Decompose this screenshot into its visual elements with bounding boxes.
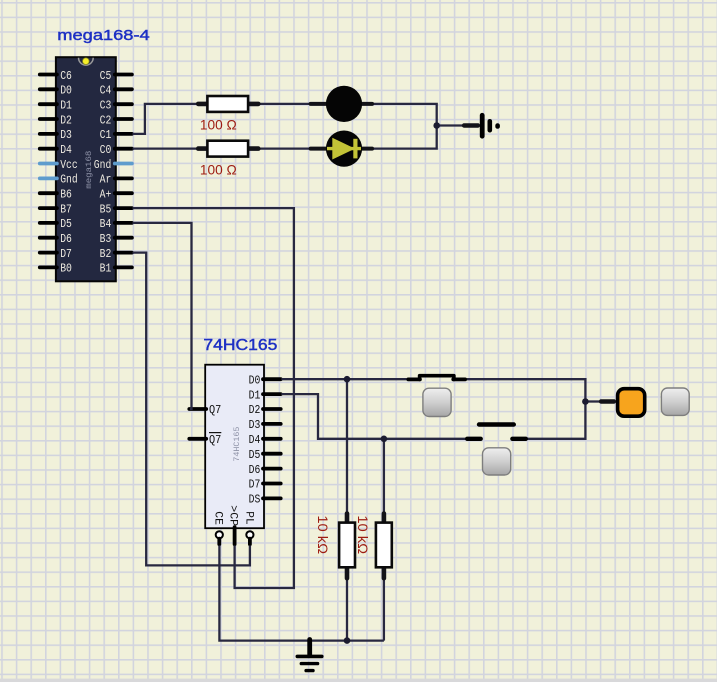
svg-text:D3: D3 bbox=[249, 419, 261, 432]
svg-text:Q7: Q7 bbox=[209, 404, 221, 417]
svg-text:PL: PL bbox=[242, 511, 254, 524]
U1 pin A+ (right) bbox=[100, 188, 132, 202]
wire R1 to LED1 bbox=[258, 103, 311, 105]
U2 pin D7 (right) bbox=[249, 479, 281, 492]
svg-text:74HC165: 74HC165 bbox=[203, 337, 277, 354]
U1 pin B1 (right) bbox=[100, 262, 132, 276]
svg-text:mega168-4: mega168-4 bbox=[57, 28, 149, 44]
svg-text:C4: C4 bbox=[100, 84, 112, 98]
button cap S4 bbox=[661, 388, 689, 415]
ground rail junction bbox=[344, 637, 351, 644]
U2 pin D3 (right) bbox=[249, 419, 281, 432]
U1 pin C6 (left) bbox=[40, 69, 72, 83]
U2 pin D6 (right) bbox=[249, 464, 281, 477]
resistor R1 100 ohm bbox=[198, 96, 258, 112]
button cap S2 bbox=[483, 448, 511, 475]
svg-text:C6: C6 bbox=[60, 69, 72, 83]
wire U1.B2 to U2.PL bbox=[133, 253, 250, 566]
svg-text:C2: C2 bbox=[100, 113, 112, 127]
U2 pin D5 (right) bbox=[249, 449, 281, 462]
U1 pin Vcc (left) bbox=[40, 158, 78, 172]
svg-text:DS: DS bbox=[249, 494, 261, 507]
node B junction (D0/R3) bbox=[344, 376, 351, 383]
IC U2 74HC165 body bbox=[205, 365, 264, 529]
svg-text:C3: C3 bbox=[100, 99, 112, 113]
pushbutton S2 symbol bbox=[467, 425, 526, 439]
wire LED1 to node A bbox=[373, 104, 437, 126]
U1 pin B0 (left) bbox=[40, 262, 72, 276]
U2 pin DS (right) bbox=[249, 494, 281, 507]
ground GND1 (rotated) bbox=[464, 115, 498, 136]
svg-text:D3: D3 bbox=[60, 128, 72, 142]
svg-text:D0: D0 bbox=[249, 374, 261, 387]
svg-text:C0: C0 bbox=[100, 143, 112, 157]
U1 pin C1 (right) bbox=[100, 128, 132, 142]
wire U2.CE to ground rail bbox=[219, 546, 384, 641]
svg-text:D6: D6 bbox=[249, 464, 261, 477]
svg-text:D5: D5 bbox=[60, 217, 72, 231]
U1 pin B6 (left) bbox=[40, 188, 72, 202]
wire R2 to LED2 bbox=[258, 147, 311, 149]
svg-text:B3: B3 bbox=[100, 232, 112, 246]
svg-text:10 kΩ: 10 kΩ bbox=[315, 515, 331, 554]
node D junction (D1/R4) bbox=[381, 436, 388, 443]
node A junction bbox=[433, 122, 440, 129]
svg-text:C5: C5 bbox=[100, 69, 112, 83]
svg-text:Ar: Ar bbox=[100, 173, 112, 187]
svg-text:>CP: >CP bbox=[227, 505, 239, 526]
U2 pin D0 (right) bbox=[249, 374, 281, 387]
resistor R3 10 kilo-ohm bbox=[339, 514, 355, 579]
svg-text:100 Ω: 100 Ω bbox=[200, 161, 237, 177]
LED D1 (top, dark) bbox=[311, 86, 373, 122]
wire U1.B5 to U2.CP bbox=[133, 208, 294, 588]
U1 pin C2 (right) bbox=[100, 113, 132, 127]
svg-text:D5: D5 bbox=[249, 449, 261, 462]
svg-text:Gnd: Gnd bbox=[60, 173, 77, 187]
svg-text:10 kΩ: 10 kΩ bbox=[355, 515, 371, 554]
wire R4 to ground rail bbox=[383, 578, 385, 641]
U1 pin D0 (left) bbox=[40, 84, 72, 98]
svg-text:74HC165: 74HC165 bbox=[233, 426, 242, 461]
resistor R2 100 ohm bbox=[198, 141, 258, 157]
wire node C to S3 bbox=[585, 400, 601, 402]
svg-text:B1: B1 bbox=[100, 262, 112, 276]
resistor R4 10 kilo-ohm bbox=[376, 514, 392, 579]
U1 pin D5 (left) bbox=[40, 217, 72, 231]
pushbutton S3 (orange) bbox=[601, 389, 645, 417]
U1 pin B2 (right) bbox=[100, 247, 132, 261]
wire node A to GND1 bbox=[437, 124, 463, 126]
U1 pin C5 (right) bbox=[100, 69, 132, 83]
svg-text:D2: D2 bbox=[60, 113, 72, 127]
wire U1.C0 to R2 bbox=[133, 147, 200, 149]
wire node B to R3 bbox=[346, 379, 348, 513]
svg-text:CE: CE bbox=[212, 511, 224, 525]
U2 pin Q7 (left) bbox=[189, 404, 221, 417]
U1 pin B7 (left) bbox=[40, 202, 72, 216]
svg-text:B7: B7 bbox=[60, 202, 72, 216]
button cap S1 bbox=[423, 388, 451, 416]
wire U2.D0 to S1 (node B) bbox=[281, 378, 406, 380]
svg-text:D0: D0 bbox=[60, 84, 72, 98]
U2 pin Q7-inverted (left) bbox=[189, 433, 221, 447]
wire U1.C1 to R1 bbox=[133, 104, 200, 134]
wire U2.D1 to S2 (node D) bbox=[281, 394, 466, 439]
U1 pin D1 (left) bbox=[40, 99, 72, 113]
U1 pin B3 (right) bbox=[100, 232, 132, 246]
U2 pin D4 (right) bbox=[249, 434, 281, 447]
U1 pin Gnd (left) bbox=[40, 173, 78, 187]
U1 pin D2 (left) bbox=[40, 113, 72, 127]
U1 pin C4 (right) bbox=[100, 84, 132, 98]
U2 pin CE (bottom, inverted) bbox=[212, 511, 224, 544]
pushbutton S1 symbol bbox=[408, 376, 465, 380]
wire node D to R4 bbox=[383, 439, 385, 513]
U1 pin D4 (left) bbox=[40, 143, 72, 157]
svg-text:C1: C1 bbox=[100, 128, 112, 142]
svg-text:D1: D1 bbox=[60, 99, 72, 113]
svg-text:B2: B2 bbox=[100, 247, 112, 261]
U1 pin B5 (right) bbox=[100, 202, 132, 216]
svg-text:D4: D4 bbox=[60, 143, 72, 157]
svg-text:Vcc: Vcc bbox=[60, 158, 77, 172]
svg-text:D1: D1 bbox=[249, 389, 261, 402]
svg-text:B0: B0 bbox=[60, 262, 72, 276]
U2 pin CP (bottom, clock) bbox=[227, 505, 239, 544]
U1 pin C0 (right) bbox=[100, 143, 132, 157]
U2 pin PL (bottom, inverted) bbox=[242, 511, 254, 544]
IC U1 mega168-4 body bbox=[56, 57, 116, 281]
wire LED2 to node A bbox=[373, 126, 437, 149]
wire S1 to S2 via node C bbox=[467, 379, 586, 439]
svg-text:mega168: mega168 bbox=[85, 150, 94, 188]
wire U1.B4 to U2.Q7 bbox=[133, 223, 192, 409]
U1 pin D7 (left) bbox=[40, 247, 72, 261]
svg-text:A+: A+ bbox=[100, 188, 112, 202]
node C junction (S3 tap) bbox=[582, 398, 589, 405]
U1 pin D6 (left) bbox=[40, 232, 72, 246]
svg-text:D7: D7 bbox=[60, 247, 72, 261]
U1 pin C3 (right) bbox=[100, 99, 132, 113]
U1 pin Gnd (right) bbox=[94, 158, 132, 172]
wire R3 to ground rail bbox=[346, 578, 348, 641]
svg-text:B6: B6 bbox=[60, 188, 72, 202]
svg-text:D7: D7 bbox=[249, 479, 261, 492]
U2 pin D1 (right) bbox=[249, 389, 281, 402]
svg-text:100 Ω: 100 Ω bbox=[200, 117, 237, 133]
svg-text:D2: D2 bbox=[249, 404, 261, 417]
U1 pin D3 (left) bbox=[40, 128, 72, 142]
ground GND2 bbox=[297, 640, 322, 671]
svg-text:Q7: Q7 bbox=[209, 434, 221, 447]
LED D2 (yellow) bbox=[311, 131, 373, 167]
U1 pin B4 (right) bbox=[100, 217, 132, 231]
svg-text:D4: D4 bbox=[249, 434, 261, 447]
svg-text:B4: B4 bbox=[100, 217, 112, 231]
svg-text:Gnd: Gnd bbox=[94, 158, 112, 172]
U1 pin Ar (right) bbox=[100, 173, 132, 187]
svg-text:D6: D6 bbox=[60, 232, 72, 246]
U2 pin D2 (right) bbox=[249, 404, 281, 417]
svg-text:B5: B5 bbox=[100, 202, 112, 216]
